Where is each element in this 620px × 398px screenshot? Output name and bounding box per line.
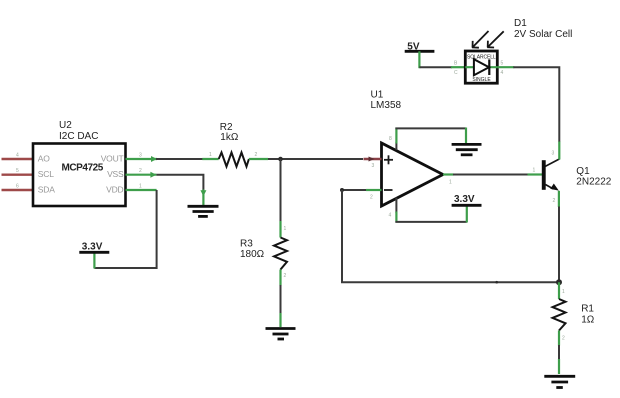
svg-text:D1: D1 [514, 18, 527, 29]
svg-text:1: 1 [449, 180, 452, 186]
pin 8 V+ to ground [389, 128, 466, 151]
light arrow 1 [472, 31, 489, 48]
transistor Q1 2N2222 [528, 142, 560, 208]
svg-text:MCP4725: MCP4725 [62, 163, 104, 174]
U1 reference label [371, 89, 402, 111]
resistor R2 1k [202, 152, 268, 167]
svg-text:5: 5 [501, 61, 504, 67]
op-amp U1 triangle [382, 143, 444, 206]
wire emitter down [558, 207, 560, 281]
svg-text:U2: U2 [59, 120, 72, 131]
svg-text:VSS: VSS [107, 169, 124, 179]
wire junction down to R3 [280, 159, 282, 222]
resistor R1 1ohm [553, 282, 566, 345]
wire R2 to opamp [268, 158, 363, 160]
svg-text:3: 3 [552, 151, 555, 157]
svg-text:4: 4 [389, 213, 392, 219]
svg-text:3.3V: 3.3V [82, 241, 103, 252]
svg-text:1: 1 [209, 152, 212, 158]
svg-text:2: 2 [255, 152, 258, 158]
D1 reference label [514, 18, 572, 40]
svg-text:1: 1 [562, 289, 565, 295]
wire 5V to solar cell [419, 66, 466, 68]
pin 4 V- to 3.3V [389, 198, 467, 223]
solar cell D1 body [454, 51, 504, 83]
svg-text:SDA: SDA [38, 185, 55, 195]
svg-text:I2C DAC: I2C DAC [59, 131, 98, 142]
light arrow 2 [487, 31, 504, 47]
IC U2 MCP4725 body [33, 144, 126, 207]
svg-text:LM358: LM358 [371, 100, 402, 111]
pin VOUT stub [126, 153, 158, 163]
ground for R3 [266, 329, 296, 340]
svg-text:U1: U1 [371, 89, 384, 100]
wire R3 to ground [280, 285, 282, 327]
U2 reference label [59, 120, 98, 142]
pin number 4 [16, 153, 19, 159]
wire SCL red [2, 173, 34, 175]
supply 3.3V at op-amp [452, 194, 482, 206]
wire solar cell to collector [497, 67, 559, 142]
svg-text:1Ω: 1Ω [581, 314, 595, 325]
wire output to Q1 base [453, 174, 528, 176]
svg-text:3: 3 [139, 153, 142, 159]
R3 value label [240, 238, 265, 260]
svg-text:180Ω: 180Ω [240, 249, 265, 260]
wire VSS to ground [156, 175, 206, 206]
junction node R3 tap [278, 157, 283, 162]
svg-text:SCL: SCL [38, 169, 54, 179]
supply 5V [405, 42, 435, 69]
svg-text:SOLARCELL: SOLARCELL [467, 54, 496, 60]
svg-text:8: 8 [389, 136, 392, 142]
resistor R3 180 [274, 221, 287, 286]
svg-text:2: 2 [139, 168, 142, 174]
svg-text:4: 4 [16, 153, 19, 159]
ground for VSS [188, 206, 219, 216]
svg-text:Q1: Q1 [576, 166, 590, 177]
ground at op-amp top [452, 144, 482, 154]
svg-text:2: 2 [370, 195, 373, 201]
wire SDA red [2, 189, 34, 191]
svg-text:2: 2 [284, 273, 287, 279]
svg-text:5: 5 [16, 168, 19, 174]
pin VDD stub [126, 184, 157, 191]
wire VDD to 3.3V [94, 190, 156, 268]
wire AO red [2, 158, 34, 160]
wire feedback emitter to inverting input [342, 190, 559, 284]
svg-text:4: 4 [501, 70, 504, 76]
svg-text:1: 1 [284, 226, 287, 232]
pin VSS stub [126, 168, 157, 178]
svg-text:2: 2 [553, 198, 556, 204]
svg-text:R3: R3 [240, 238, 253, 249]
svg-text:SINGLE: SINGLE [472, 77, 491, 83]
svg-text:3.3V: 3.3V [454, 194, 475, 205]
pin 1 output [443, 175, 454, 186]
svg-text:2V Solar Cell: 2V Solar Cell [514, 29, 572, 40]
svg-text:C: C [454, 70, 458, 76]
svg-text:3: 3 [372, 163, 375, 169]
Q1 reference label [576, 166, 611, 188]
svg-text:1kΩ: 1kΩ [220, 132, 239, 143]
svg-text:1: 1 [533, 168, 536, 174]
svg-text:2N2222: 2N2222 [576, 177, 611, 188]
svg-text:VOUT: VOUT [101, 154, 124, 164]
svg-text:R1: R1 [581, 303, 594, 314]
svg-text:2: 2 [562, 336, 565, 342]
supply 3.3V at U2 [79, 241, 109, 268]
svg-text:1: 1 [139, 184, 142, 190]
pin 3 noninverting input [364, 157, 382, 170]
ground for R1 [544, 376, 575, 387]
pin number 6 [16, 184, 19, 190]
wire R1 to ground [558, 345, 560, 374]
wire VOUT to R2 [156, 158, 203, 160]
junction node emitter feedback [556, 279, 562, 285]
svg-text:AO: AO [38, 154, 50, 164]
pin 2 inverting input [340, 188, 382, 201]
svg-text:6: 6 [16, 184, 19, 190]
R1 value label [581, 303, 595, 325]
R2 value label [220, 122, 239, 143]
pin number 5 [16, 168, 19, 174]
svg-text:VDD: VDD [106, 185, 123, 195]
